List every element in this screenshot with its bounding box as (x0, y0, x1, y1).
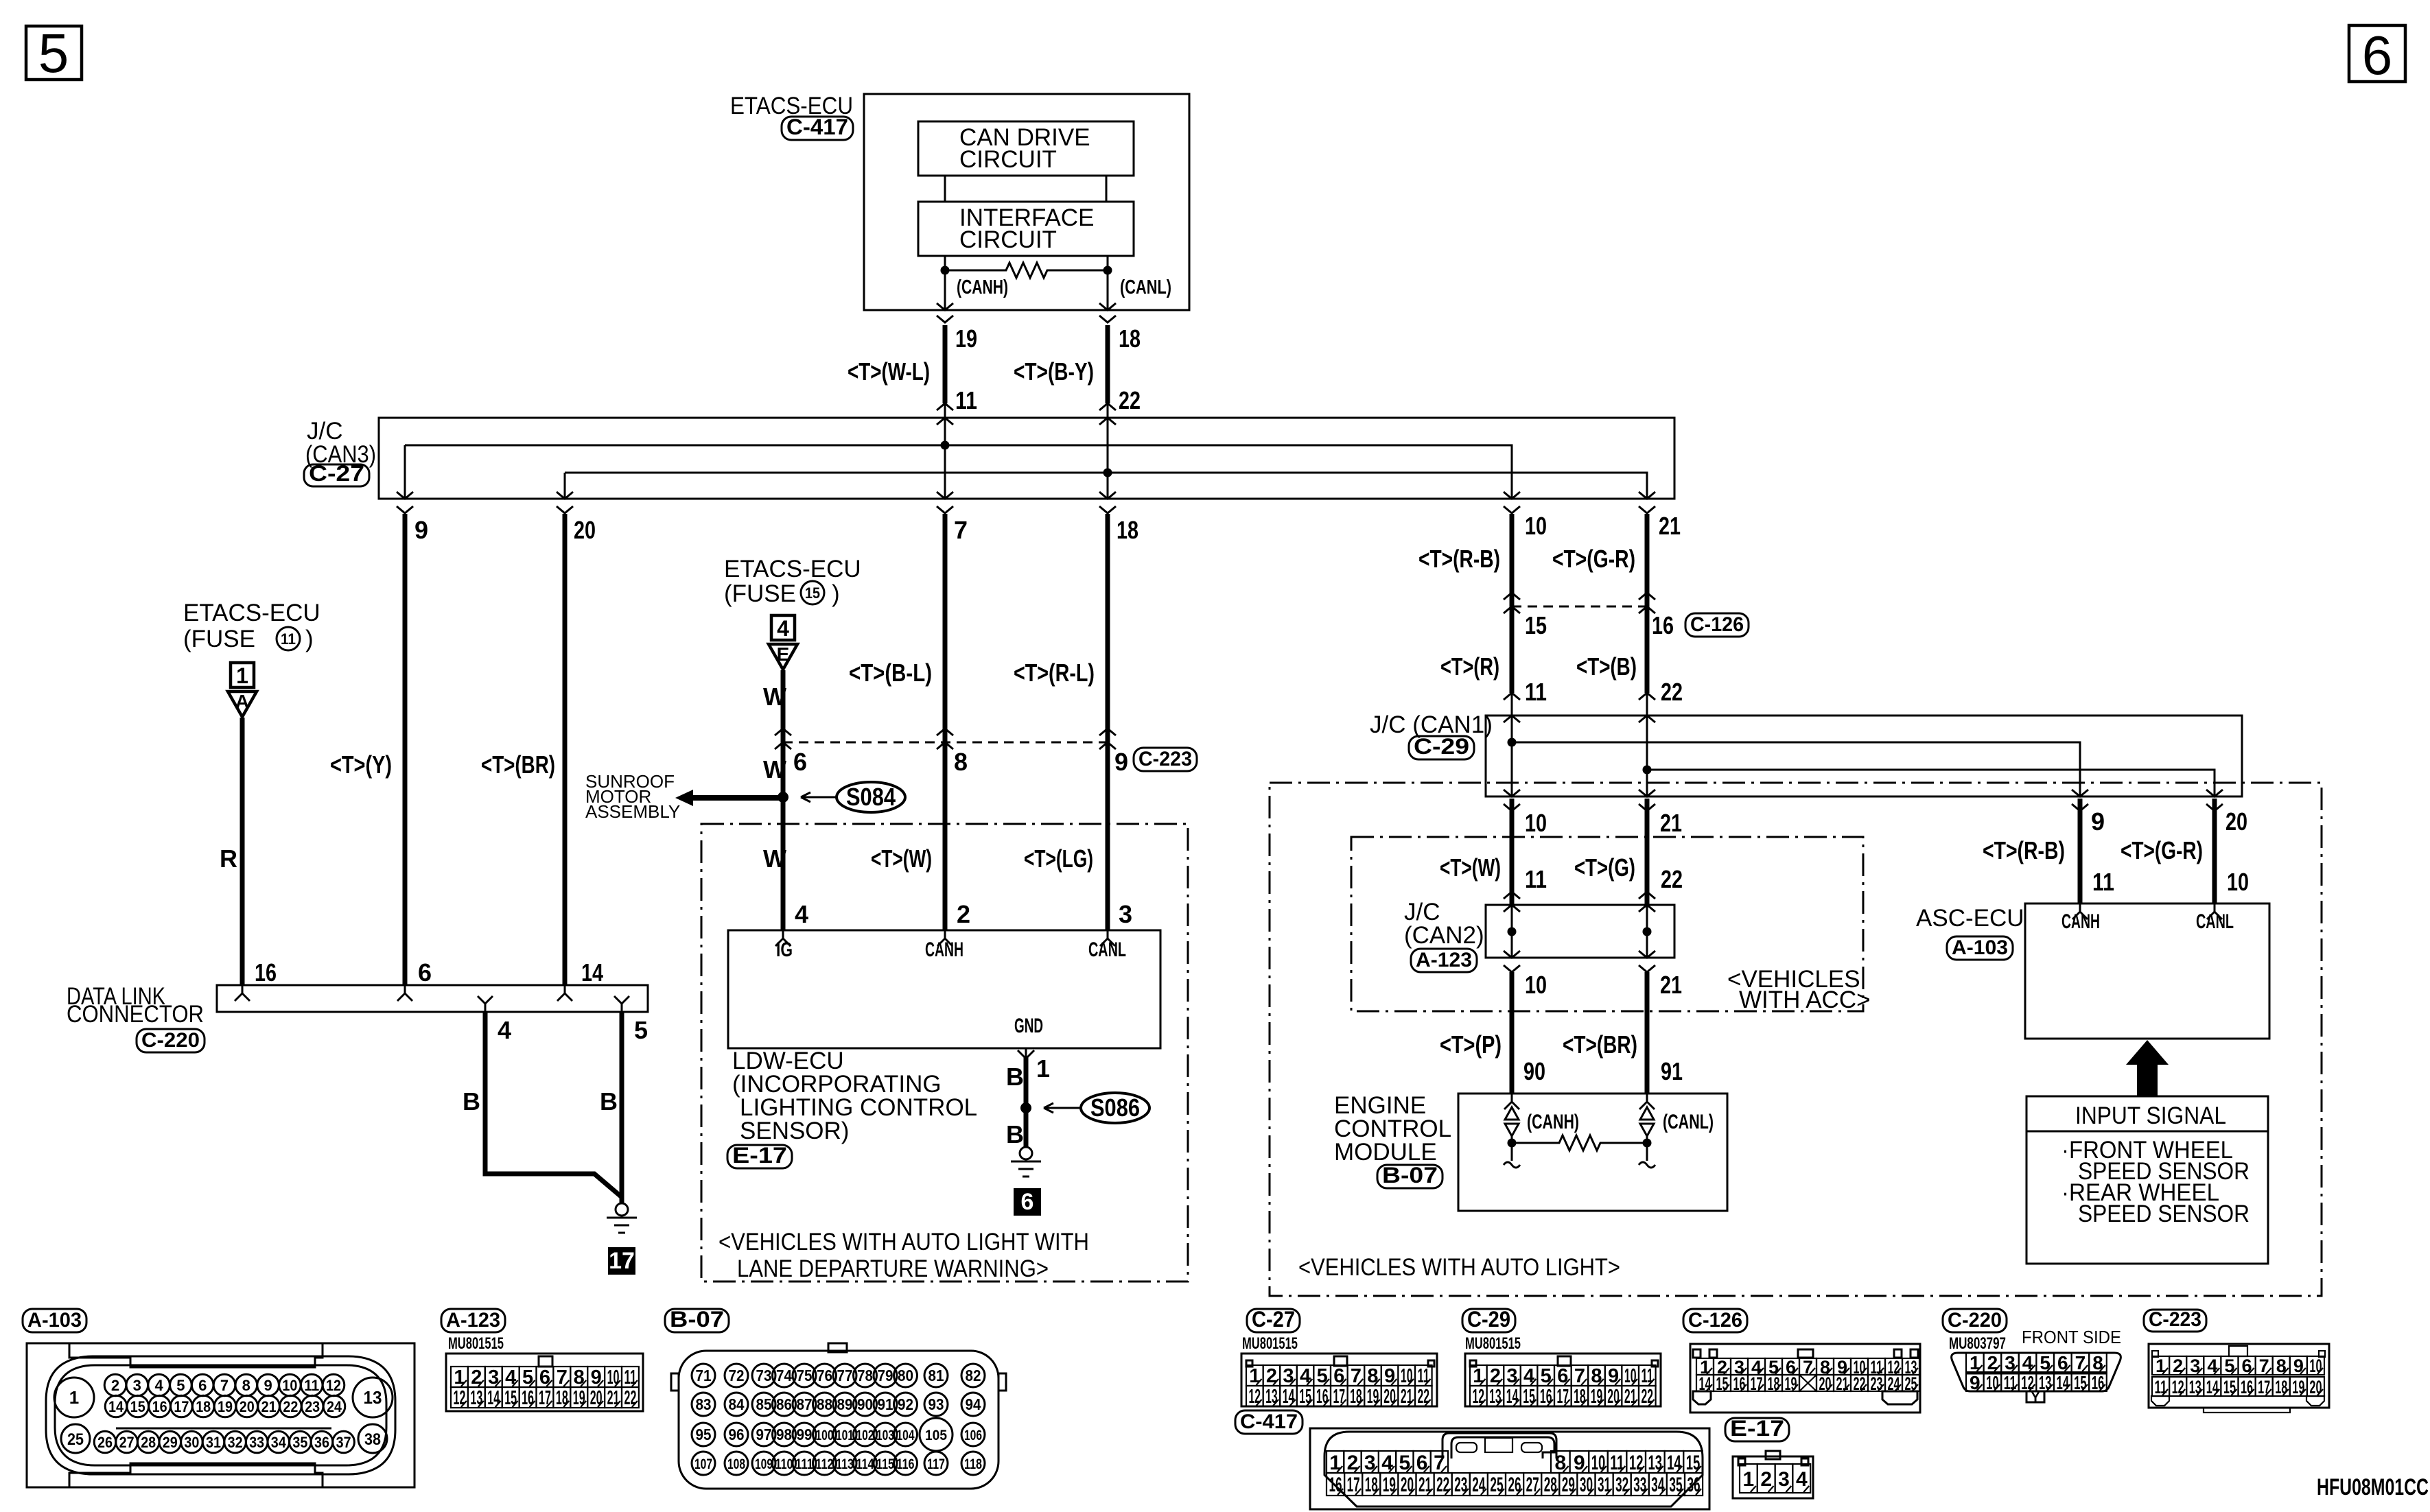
svg-text:IG: IG (776, 938, 793, 961)
junction box J/C CAN3 C-27 (379, 418, 1674, 499)
svg-text:(CANH): (CANH) (1527, 1111, 1579, 1133)
svg-text:20: 20 (1819, 1373, 1832, 1394)
svg-text:(FUSE: (FUSE (183, 626, 255, 652)
node bus A at CANH (941, 441, 950, 450)
svg-text:27: 27 (119, 1434, 135, 1451)
svg-text:<T>(W): <T>(W) (1440, 853, 1501, 882)
wire CAN drive to interface left (944, 176, 946, 202)
svg-text:6: 6 (539, 1367, 550, 1389)
svg-text:22: 22 (1661, 678, 1683, 706)
svg-text:17: 17 (2258, 1377, 2270, 1397)
svg-text:24: 24 (327, 1398, 342, 1415)
svg-text:<T>(B): <T>(B) (1576, 652, 1637, 681)
svg-text:32: 32 (228, 1434, 243, 1451)
junction box J/C CAN2 A-123 (1486, 905, 1674, 958)
svg-text:4: 4 (1523, 1365, 1534, 1387)
svg-text:37: 37 (336, 1434, 351, 1451)
pin mark 4 inside LDW (775, 930, 791, 946)
svg-text:7: 7 (2259, 1356, 2269, 1376)
svg-text:11: 11 (2092, 868, 2114, 896)
svg-text:CIRCUIT: CIRCUIT (959, 146, 1057, 173)
pin mark 19 at box edge (937, 303, 953, 310)
svg-text:MU801515: MU801515 (448, 1334, 504, 1353)
svg-text:95: 95 (696, 1426, 712, 1443)
pin mark 91 inside ECM (1639, 1094, 1655, 1109)
svg-text:<T>(LG): <T>(LG) (1024, 844, 1093, 873)
wire bus B drop pin20 (564, 473, 566, 499)
svg-text:A: A (235, 691, 249, 712)
svg-text:1: 1 (1970, 1352, 1981, 1373)
pin marks at J/C CAN1 edges (1504, 790, 1520, 796)
wire pin11 through CAN1 box (1511, 716, 1513, 796)
svg-text:4: 4 (505, 1367, 516, 1389)
pin mark 18 at box edge (1099, 303, 1116, 310)
C-220 trapezoid body (1952, 1353, 2121, 1391)
svg-text:3: 3 (1506, 1365, 1517, 1387)
pin mark 6 in DLC (397, 985, 412, 1001)
svg-text:A-103: A-103 (1952, 936, 2008, 959)
svg-text:85: 85 (756, 1395, 772, 1413)
svg-text:33: 33 (1633, 1474, 1646, 1496)
svg-text:7: 7 (954, 516, 968, 544)
svg-text:WITH ACC>: WITH ACC> (1739, 987, 1871, 1013)
svg-text:103: 103 (876, 1428, 894, 1443)
wire W pin6 to LDW pin4 (781, 742, 786, 930)
svg-text:18: 18 (1350, 1386, 1362, 1408)
svg-text:10: 10 (1591, 1452, 1606, 1474)
svg-text:11: 11 (281, 630, 296, 648)
svg-text:83: 83 (696, 1395, 712, 1413)
node CAN2 bus A (1508, 928, 1517, 936)
svg-text:28: 28 (141, 1434, 156, 1451)
svg-text:5: 5 (522, 1367, 533, 1389)
svg-text:5: 5 (1399, 1452, 1411, 1474)
inline connector C-126 dashed wire (1504, 593, 1520, 600)
connector C-27 label (304, 464, 369, 486)
A-103 divider line (116, 1428, 331, 1430)
svg-text:16: 16 (522, 1387, 534, 1409)
svg-text:B: B (1006, 1120, 1024, 1148)
svg-text:111: 111 (795, 1456, 813, 1472)
svg-text:16: 16 (255, 958, 277, 987)
wire pin22 into J/C CAN3 (1099, 403, 1116, 410)
node CAN2 bus B (1643, 928, 1652, 936)
svg-text:10: 10 (1986, 1372, 1999, 1393)
ECM CANH terminal triangles (1505, 1107, 1519, 1120)
svg-text:8: 8 (1367, 1365, 1378, 1387)
svg-text:8: 8 (242, 1377, 250, 1394)
svg-text:10: 10 (2227, 868, 2249, 896)
svg-text:19: 19 (2292, 1377, 2304, 1397)
svg-text:100: 100 (816, 1428, 834, 1443)
svg-text:88: 88 (817, 1395, 832, 1413)
wire <T>(G-R) pin20 to pin10 far right (2212, 799, 2217, 903)
S086 splice label (1081, 1093, 1149, 1123)
connector C-220 label (137, 1029, 205, 1052)
svg-text:3: 3 (133, 1377, 141, 1394)
svg-text:21: 21 (1660, 971, 1682, 999)
svg-text:96: 96 (729, 1426, 745, 1443)
svg-text:18: 18 (2275, 1377, 2287, 1397)
svg-text:12: 12 (454, 1387, 466, 1409)
svg-text:84: 84 (729, 1395, 745, 1413)
svg-text:3: 3 (1364, 1452, 1376, 1474)
svg-text:2: 2 (1266, 1365, 1277, 1387)
connector C-223 label (1134, 748, 1197, 771)
svg-text:C-29: C-29 (1414, 734, 1469, 759)
svg-text:4: 4 (795, 900, 808, 928)
svg-text:18: 18 (1117, 516, 1138, 544)
svg-text:27: 27 (1526, 1474, 1539, 1496)
svg-text:72: 72 (729, 1367, 745, 1384)
svg-text:17: 17 (174, 1398, 189, 1415)
pin marks at J/C CAN2 edges (1504, 892, 1520, 899)
dash-dot box VEHICLES WITH AUTO LIGHT (1270, 783, 2322, 1296)
svg-text:2: 2 (1760, 1468, 1772, 1491)
svg-text:6: 6 (793, 748, 807, 776)
svg-text:15: 15 (2074, 1372, 2087, 1393)
svg-text:20: 20 (1607, 1386, 1620, 1408)
svg-text:4: 4 (498, 1016, 511, 1044)
INTERFACE CIRCUIT box (918, 202, 1134, 256)
connector C-417 label (782, 117, 853, 140)
connector E-17 pinout (1725, 1418, 1789, 1441)
svg-text:12: 12 (1249, 1386, 1261, 1408)
svg-text:LANE DEPARTURE WARNING>: LANE DEPARTURE WARNING> (737, 1255, 1049, 1282)
wire B LDW GND to ground (1024, 1056, 1029, 1147)
S084 splice label (837, 782, 905, 812)
svg-text:87: 87 (797, 1395, 813, 1413)
svg-text:29: 29 (1562, 1474, 1575, 1496)
fuse 15 symbol F2 (771, 615, 795, 640)
wire <T>(W) pin8 to LDW pin2 (943, 742, 948, 930)
A-103 pin row 26-37 (94, 1431, 116, 1453)
input signal arrow (2126, 1040, 2169, 1096)
svg-text:S084: S084 (846, 783, 896, 811)
pin mark 11 inside ASC (2072, 903, 2088, 919)
svg-text:17: 17 (539, 1387, 551, 1409)
junction box J/C CAN1 C-29 (1486, 716, 2242, 796)
svg-text:(CANL): (CANL) (1663, 1111, 1714, 1133)
svg-text:A-123: A-123 (446, 1309, 500, 1332)
svg-text:CANH: CANH (925, 938, 963, 961)
svg-text:14: 14 (2206, 1377, 2219, 1397)
svg-text:77: 77 (837, 1367, 853, 1384)
pin mark 14 in DLC (557, 985, 572, 1001)
INPUT SIGNAL box (2026, 1096, 2268, 1264)
pin mark 4 in DLC (478, 996, 493, 1012)
svg-text:C-223: C-223 (1138, 748, 1192, 770)
svg-text:18: 18 (1119, 324, 1141, 353)
svg-text:2: 2 (957, 900, 970, 928)
svg-text:30: 30 (184, 1434, 199, 1451)
wire pin11 into J/C CAN1 (1504, 693, 1520, 700)
svg-text:114: 114 (856, 1456, 874, 1472)
svg-text:21: 21 (1660, 809, 1682, 837)
A-103 pin row 2-12 (104, 1374, 126, 1396)
svg-text:<T>(R-L): <T>(R-L) (1014, 659, 1095, 687)
svg-text:(FUSE: (FUSE (724, 580, 796, 607)
svg-text:20: 20 (2309, 1377, 2322, 1397)
wire <T>(B-Y) pin18 to pin22 (1106, 325, 1110, 403)
svg-text:18: 18 (1768, 1373, 1780, 1394)
svg-text:6: 6 (198, 1377, 207, 1394)
svg-text:90: 90 (1523, 1057, 1545, 1085)
svg-text:2: 2 (1347, 1452, 1359, 1474)
ECM terminating resistor R2 (1511, 1136, 1513, 1143)
svg-text:B: B (600, 1087, 618, 1115)
svg-text:<VEHICLES WITH AUTO LIGHT WITH: <VEHICLES WITH AUTO LIGHT WITH (719, 1229, 1089, 1255)
wire <T>(G-R) pin21 to pin16 (1645, 514, 1650, 606)
svg-text:19: 19 (573, 1387, 585, 1409)
svg-text:<T>(G-R): <T>(G-R) (2121, 836, 2203, 864)
svg-text:34: 34 (1651, 1474, 1664, 1496)
svg-text:ETACS-ECU: ETACS-ECU (183, 600, 320, 626)
wire <T>(P) pin10 to pin90 (1510, 972, 1515, 1094)
C-29 pin cells (1470, 1365, 1487, 1386)
svg-text:<T>(R-B): <T>(R-B) (1983, 836, 2065, 864)
svg-text:HFU08M01CC: HFU08M01CC (2317, 1474, 2429, 1500)
svg-text:105: 105 (925, 1428, 947, 1443)
svg-text:2: 2 (2173, 1356, 2183, 1376)
node CAN1 bus B (1643, 766, 1652, 775)
svg-text:16: 16 (1540, 1386, 1552, 1408)
node CAN1 bus A (1508, 738, 1517, 747)
connector C-220 pinout (1943, 1309, 2007, 1332)
svg-text:16: 16 (2092, 1372, 2105, 1393)
svg-text:INPUT SIGNAL: INPUT SIGNAL (2075, 1102, 2226, 1129)
pin marks at J/C CAN3 bottom edge (397, 492, 413, 499)
svg-text:32: 32 (1615, 1474, 1628, 1496)
svg-text:C-220: C-220 (1948, 1309, 2002, 1332)
svg-text:106: 106 (964, 1428, 982, 1443)
svg-text:<T>(W-L): <T>(W-L) (848, 357, 930, 386)
svg-text:107: 107 (694, 1456, 712, 1472)
svg-text:80: 80 (898, 1367, 913, 1384)
svg-text:1: 1 (236, 663, 248, 688)
svg-text:20: 20 (240, 1398, 255, 1415)
svg-text:33: 33 (249, 1434, 264, 1451)
svg-text:R: R (220, 844, 237, 873)
svg-text:110: 110 (775, 1456, 793, 1472)
svg-text:5: 5 (176, 1377, 185, 1394)
inline connector C-223 dashed wire (775, 729, 791, 735)
svg-text:CIRCUIT: CIRCUIT (959, 226, 1057, 253)
svg-text:1: 1 (454, 1367, 465, 1389)
ENGINE CONTROL MODULE box U2 (1458, 1094, 1727, 1211)
svg-text:7: 7 (1574, 1365, 1585, 1387)
connector C-126 label (1685, 613, 1749, 637)
svg-text:21: 21 (607, 1387, 620, 1409)
C-220 pin cells (1966, 1353, 1984, 1372)
svg-text:94: 94 (966, 1395, 981, 1413)
svg-text:16: 16 (1733, 1373, 1746, 1394)
wire pin22 through CAN1 box (1646, 716, 1648, 796)
C-27 pin cells (1246, 1365, 1263, 1386)
wire <T>(W) pin10 to pin11 (1510, 799, 1515, 905)
svg-text:81: 81 (928, 1367, 944, 1384)
pin mark 5 in DLC (614, 996, 629, 1012)
svg-text:4: 4 (1300, 1365, 1311, 1387)
svg-text:5: 5 (1541, 1365, 1552, 1387)
node CANL junction (1103, 266, 1112, 275)
svg-text:MU801515: MU801515 (1465, 1334, 1521, 1353)
wire <T>(BR) pin20 to DLC pin14 (563, 514, 568, 985)
svg-text:7: 7 (557, 1367, 568, 1389)
pin mark GND below LDW (1018, 1048, 1034, 1059)
svg-text:18: 18 (556, 1387, 568, 1409)
svg-text:14: 14 (1506, 1386, 1519, 1408)
svg-text:29: 29 (163, 1434, 178, 1451)
svg-text:11: 11 (304, 1377, 319, 1394)
svg-text:<T>(R-B): <T>(R-B) (1418, 545, 1500, 573)
svg-text:6: 6 (2242, 1356, 2252, 1376)
wire <T>(W-L) pin19 to pin11 (943, 325, 948, 403)
pin mark 3 inside LDW (1100, 930, 1115, 946)
svg-text:18: 18 (1365, 1474, 1378, 1496)
C-223 pin cells (2152, 1356, 2169, 1375)
svg-text:11: 11 (1642, 1365, 1654, 1387)
svg-text:B-07: B-07 (670, 1307, 724, 1332)
pin mark 90 inside ECM (1504, 1094, 1519, 1109)
svg-text:(CANL): (CANL) (1120, 276, 1171, 298)
svg-text:5: 5 (2224, 1356, 2234, 1376)
svg-text:15: 15 (1716, 1373, 1729, 1394)
svg-text:1: 1 (1473, 1365, 1484, 1387)
connector A-123 label (1411, 949, 1477, 972)
ETACS-ECU box U1 (864, 94, 1189, 310)
C-220 Y key box (2026, 1391, 2044, 1402)
svg-text:21: 21 (1401, 1386, 1413, 1408)
svg-text:117: 117 (927, 1456, 945, 1472)
pin mark 16 in DLC (235, 985, 250, 1001)
svg-text:31: 31 (206, 1434, 221, 1451)
svg-text:22: 22 (283, 1398, 298, 1415)
svg-text:8: 8 (1591, 1365, 1602, 1387)
svg-text:79: 79 (878, 1367, 893, 1384)
svg-text:74: 74 (776, 1367, 792, 1384)
node S084 splice (778, 792, 788, 803)
ECM internal ground stub CANL (1646, 1143, 1648, 1161)
wire <T>(R) pin15 to pin11 (1510, 606, 1515, 693)
svg-text:7: 7 (1434, 1452, 1445, 1474)
svg-text:15: 15 (2223, 1377, 2236, 1397)
svg-text:6: 6 (418, 958, 432, 987)
svg-text:34: 34 (271, 1434, 287, 1451)
svg-text:17: 17 (1333, 1386, 1346, 1408)
svg-text:SPEED SENSOR: SPEED SENSOR (2078, 1201, 2250, 1227)
svg-text:19: 19 (218, 1398, 233, 1415)
wire bus A drop pin9 (404, 445, 406, 499)
svg-text:C-417: C-417 (1240, 1410, 1298, 1433)
svg-text:11: 11 (1525, 865, 1547, 893)
B-07 pin circles (692, 1364, 715, 1387)
svg-text:92: 92 (898, 1395, 913, 1413)
svg-text:11: 11 (1525, 678, 1547, 706)
svg-text:115: 115 (876, 1456, 894, 1472)
svg-text:17: 17 (1347, 1474, 1360, 1496)
svg-text:E: E (777, 643, 790, 665)
svg-text:21: 21 (1659, 512, 1681, 540)
connector B-07 label (1377, 1165, 1442, 1188)
svg-text:10: 10 (282, 1377, 297, 1394)
svg-text:15: 15 (1523, 1386, 1535, 1408)
connector C-126 pinout (1683, 1309, 1747, 1332)
svg-text:104: 104 (897, 1428, 915, 1443)
svg-text:20: 20 (2225, 807, 2247, 836)
svg-text:8: 8 (954, 748, 968, 776)
svg-text:14: 14 (108, 1398, 124, 1415)
svg-text:10: 10 (1525, 512, 1547, 540)
svg-text:S086: S086 (1090, 1094, 1140, 1122)
svg-text:C-126: C-126 (1688, 1309, 1742, 1332)
svg-text:C-27: C-27 (1252, 1307, 1295, 1332)
page number 5 box (26, 26, 82, 80)
node CANH junction (941, 266, 950, 275)
CAN DRIVE CIRCUIT box (918, 121, 1134, 176)
svg-text:(CANH): (CANH) (957, 276, 1008, 298)
DATA LINK CONNECTOR box J1 (217, 985, 648, 1012)
svg-text:4: 4 (154, 1377, 163, 1394)
svg-text:21: 21 (1836, 1373, 1849, 1394)
svg-text:9: 9 (414, 516, 428, 544)
svg-text:11: 11 (1610, 1452, 1624, 1474)
svg-text:Y: Y (2031, 1390, 2040, 1405)
svg-text:<T>(B-L): <T>(B-L) (849, 659, 932, 687)
svg-text:101: 101 (836, 1428, 854, 1443)
svg-text:4: 4 (2207, 1356, 2217, 1376)
svg-text:3: 3 (2190, 1356, 2200, 1376)
svg-text:14: 14 (1667, 1452, 1681, 1474)
wire B from pin5 to ground (620, 1012, 624, 1203)
svg-text:25: 25 (1490, 1474, 1503, 1496)
svg-text:4: 4 (2022, 1352, 2033, 1373)
connector A-103 pinout (23, 1309, 86, 1332)
terminating resistor R1 (945, 263, 1108, 278)
svg-text:26: 26 (1508, 1474, 1521, 1496)
svg-text:C-220: C-220 (141, 1029, 200, 1052)
svg-text:3: 3 (1778, 1468, 1790, 1491)
svg-text:7: 7 (1351, 1365, 1362, 1387)
E-17 pin cells (1740, 1464, 1757, 1493)
svg-text:10: 10 (1401, 1365, 1413, 1387)
svg-text:<VEHICLES WITH AUTO LIGHT>: <VEHICLES WITH AUTO LIGHT> (1298, 1254, 1620, 1281)
svg-text:21: 21 (261, 1398, 277, 1415)
svg-text:9: 9 (2293, 1356, 2304, 1376)
wire CANL to pin 18 (1107, 270, 1109, 310)
svg-text:20: 20 (590, 1387, 603, 1409)
svg-text:11: 11 (2155, 1377, 2167, 1397)
svg-text:112: 112 (816, 1456, 834, 1472)
svg-text:19: 19 (955, 324, 977, 353)
pin mark 10 inside ASC (2207, 903, 2222, 919)
connector C-27 pinout (1247, 1309, 1300, 1332)
connector B-07 pinout (665, 1309, 729, 1332)
svg-text:C-223: C-223 (2149, 1308, 2201, 1331)
svg-text:12: 12 (1629, 1452, 1644, 1474)
wire interface to CANL node (1107, 256, 1109, 270)
svg-text:89: 89 (837, 1395, 853, 1413)
svg-text:ETACS-ECU: ETACS-ECU (724, 556, 861, 582)
connector A-103 label (1947, 936, 2013, 960)
svg-text:75: 75 (797, 1367, 813, 1384)
svg-text:76: 76 (817, 1367, 832, 1384)
svg-text:14: 14 (487, 1387, 500, 1409)
svg-text:9: 9 (264, 1377, 272, 1394)
svg-text:MU803797: MU803797 (1949, 1334, 2006, 1353)
svg-text:15: 15 (1299, 1386, 1311, 1408)
C-223 bottom tab (2204, 1408, 2290, 1413)
